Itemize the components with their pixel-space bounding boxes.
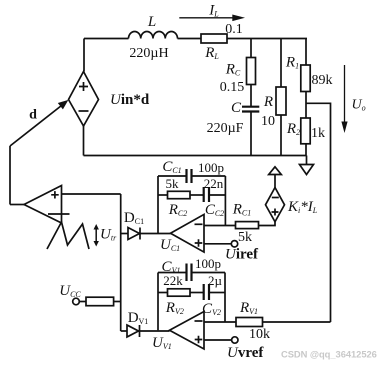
wire top rail right [178,38,202,40]
terminal Uvref [232,337,238,343]
wire R1 to R2 [305,92,307,119]
wire to comparator output [10,204,24,206]
svg-text:Uo: Uo [352,98,366,113]
source Ki*IL diamond [266,188,285,222]
wire DC1 to UC1 [140,233,171,235]
sawtooth waveform [47,222,89,249]
arrow above Ki*IL stem [274,175,276,188]
wire RV2 to CV2 [190,292,204,294]
resistor Ucc [86,297,114,306]
minus comparator input stub [48,213,70,215]
wire below diamond [83,126,85,156]
resistor RV1 [236,318,263,327]
svg-text:CSDN @qq_36412526: CSDN @qq_36412526 [281,349,377,360]
svg-text:R1: R1 [285,55,299,71]
svg-text:RV1: RV1 [239,300,258,316]
resistor RC [247,58,256,85]
resistor RL [201,34,227,43]
svg-text:RC1: RC1 [232,202,252,218]
diode DC1 [128,228,140,240]
wire UV1 feedback top left [158,272,187,274]
wire bottom rail [84,155,307,157]
wire UV1 feedback top right [192,272,226,274]
capacitor CV1 plates [187,264,192,282]
arrow above Ki*IL head [269,167,282,175]
svg-text:IL: IL [208,3,219,19]
svg-text:220µH: 220µH [129,46,168,61]
wire RC1 to source [259,222,276,226]
svg-text:Uiref: Uiref [225,247,259,263]
svg-text:RC: RC [225,62,241,78]
wire Ucc to resistor [79,301,86,303]
svg-text:RV2: RV2 [165,300,184,316]
wire UV1 mid row left [158,292,168,294]
svg-text:Uin*d: Uin*d [110,92,150,108]
diode DV1 wire left [121,330,127,332]
resistor R2 [301,118,310,144]
wire C to rail [250,112,252,156]
comparator triangle [24,186,62,224]
plus UV1 [195,336,203,344]
wire RC to C [250,85,252,107]
op-amp UC1 triangle [171,214,205,252]
wire UC1 plus input [204,243,231,245]
svg-text:220µF: 220µF [207,121,244,136]
wire CV2 to right vertical [209,292,225,294]
svg-text:Uvref: Uvref [227,345,264,361]
wire Ucc resistor to bus [114,301,121,303]
minus in Ki*IL [272,197,279,199]
svg-text:d: d [29,108,37,123]
svg-text:UC1: UC1 [160,237,180,253]
arrow IL [179,17,233,19]
terminal Ucc [73,298,80,305]
source Uin*d diamond [69,72,99,127]
resistor R1 [301,65,310,92]
plus UC1 [195,239,203,247]
inductor L [129,31,178,38]
wire UV1 feedback left vertical [157,273,159,331]
svg-text:RC2: RC2 [168,202,188,218]
svg-text:Utr: Utr [100,227,117,243]
wire top rail to corner [227,38,307,40]
resistor RC2 [168,191,191,198]
resistor R branch wire [280,39,282,88]
wire comparator plus to bus [62,193,121,195]
wire RV1 to divider tap [263,321,331,323]
svg-text:1k: 1k [311,126,325,141]
svg-text:R: R [263,94,273,110]
svg-text:CC2: CC2 [205,202,224,218]
arrow d line [10,102,66,146]
svg-text:22n: 22n [204,176,224,191]
wire R to rail [280,115,282,156]
resistor R [276,87,286,115]
wire divider tap [306,103,331,322]
capacitor CV2 plates [204,284,209,300]
wire DV1 to UV1 [140,330,170,332]
wire R1 corner down [305,39,307,66]
arrowhead d [58,100,69,110]
wire UC1 feedback top right [192,175,226,177]
svg-text:DC1: DC1 [124,210,144,226]
svg-text:L: L [147,14,156,30]
svg-text:Ki*IL: Ki*IL [287,199,318,215]
op-amp UV1 triangle [170,312,205,350]
wire UV1 plus input [204,339,232,341]
arrow Utr [95,227,97,244]
capacitor CC1 plates [187,169,192,183]
wire d vertical [9,146,11,205]
svg-text:RL: RL [204,45,219,61]
plus comparator [51,191,59,198]
svg-text:0.1: 0.1 [225,22,243,37]
minus UC1 [195,223,203,225]
capacitor C plates [242,107,259,112]
ground triangle [300,165,314,175]
wire UC1 feedback left vertical [157,176,159,233]
capacitor CC2 plates [204,187,209,202]
svg-text:C: C [231,100,242,116]
svg-text:CC1: CC1 [162,159,181,175]
minus in Uin*d [79,110,89,112]
svg-text:5k: 5k [166,176,180,191]
arrowhead Uo [341,122,347,134]
svg-text:DV1: DV1 [128,310,149,326]
diode DV1 [127,325,140,337]
wire UC1 minus input [204,225,236,227]
svg-text:100p: 100p [195,256,221,271]
resistor RC branch wire [250,39,252,58]
arrow Uo line [344,65,346,123]
svg-text:2µ: 2µ [208,273,223,288]
wire RC2 to CC2 [190,194,204,196]
wire UV1 minus input [204,321,236,323]
wire CC2 to right vertical [209,194,225,196]
resistor RV2 [168,289,191,296]
terminal Uiref [231,241,237,247]
svg-text:100p: 100p [198,160,224,175]
svg-text:10: 10 [261,114,275,129]
wire bus vertical [120,194,122,331]
svg-text:UV1: UV1 [152,335,172,351]
svg-text:89k: 89k [312,73,333,88]
resistor RC1 [236,222,259,229]
wire UC1 feedback top left [158,175,187,177]
plus in Ki*IL [272,209,279,216]
wire UC1 mid row left [158,194,168,196]
svg-text:UCC: UCC [59,283,81,299]
svg-text:R2: R2 [286,121,300,137]
wire UV1 feedback right vertical [224,273,226,323]
wire left vertical [83,39,85,72]
wire top rail left [84,38,129,40]
svg-text:5k: 5k [238,230,252,245]
wire R2 to rail [305,144,307,156]
plus in Uin*d [79,82,88,91]
minus UV1 [195,320,203,322]
svg-text:22k: 22k [163,273,183,288]
ground stem [306,156,308,165]
wire UC1 feedback right vertical [224,176,226,226]
svg-text:10k: 10k [249,327,270,342]
svg-text:CV2: CV2 [202,301,221,317]
diode DC1 wire left [121,233,128,235]
svg-text:0.15: 0.15 [220,80,245,95]
